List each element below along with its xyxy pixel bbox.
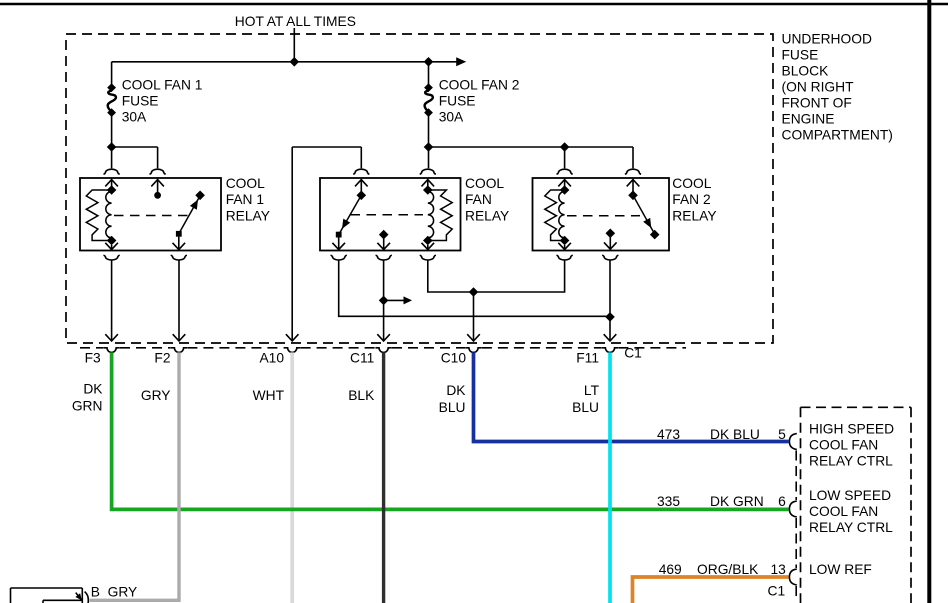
svg-text:BLOCK: BLOCK xyxy=(782,64,830,79)
svg-text:HOT AT ALL TIMES: HOT AT ALL TIMES xyxy=(235,14,356,29)
svg-text:335: 335 xyxy=(657,494,680,509)
svg-text:RELAY CTRL: RELAY CTRL xyxy=(809,520,893,535)
svg-text:COOL: COOL xyxy=(465,176,504,191)
svg-text:BLK: BLK xyxy=(348,388,375,403)
svg-text:6: 6 xyxy=(778,494,786,509)
svg-text:GRY: GRY xyxy=(108,585,138,600)
svg-text:ENGINE: ENGINE xyxy=(782,112,835,127)
svg-text:COOL FAN: COOL FAN xyxy=(809,437,878,452)
svg-text:30A: 30A xyxy=(439,110,464,125)
svg-text:COMPARTMENT): COMPARTMENT) xyxy=(782,128,893,143)
svg-text:ORG/BLK: ORG/BLK xyxy=(697,562,759,577)
svg-text:UNDERHOOD: UNDERHOOD xyxy=(782,32,872,47)
svg-text:5: 5 xyxy=(778,427,786,442)
svg-text:FRONT OF: FRONT OF xyxy=(782,96,852,111)
svg-text:DK GRN: DK GRN xyxy=(710,494,764,509)
svg-text:LOW REF: LOW REF xyxy=(809,562,872,577)
svg-text:LT: LT xyxy=(584,383,600,398)
svg-text:C11: C11 xyxy=(350,350,374,365)
svg-text:BLU: BLU xyxy=(572,400,599,415)
svg-text:30A: 30A xyxy=(122,110,147,125)
svg-text:LOW SPEED: LOW SPEED xyxy=(809,488,891,503)
svg-text:F11: F11 xyxy=(576,350,599,365)
svg-text:RELAY: RELAY xyxy=(672,208,716,223)
svg-text:BLU: BLU xyxy=(439,400,466,415)
svg-text:(ON RIGHT: (ON RIGHT xyxy=(782,80,855,95)
svg-text:DK BLU: DK BLU xyxy=(710,427,760,442)
svg-text:COOL FAN: COOL FAN xyxy=(809,504,878,519)
svg-text:FAN: FAN xyxy=(465,192,492,207)
svg-text:HIGH SPEED: HIGH SPEED xyxy=(809,421,894,436)
svg-text:13: 13 xyxy=(770,562,786,577)
svg-text:FUSE: FUSE xyxy=(122,94,159,109)
svg-text:COOL: COOL xyxy=(226,176,265,191)
svg-text:FAN 2: FAN 2 xyxy=(672,192,710,207)
svg-text:FUSE: FUSE xyxy=(782,48,819,63)
svg-text:B: B xyxy=(91,585,100,600)
svg-text:DK: DK xyxy=(446,383,466,398)
svg-text:COOL: COOL xyxy=(672,176,711,191)
svg-text:FUSE: FUSE xyxy=(439,94,476,109)
svg-text:GRY: GRY xyxy=(141,388,171,403)
svg-text:COOL FAN 2: COOL FAN 2 xyxy=(439,78,520,93)
svg-text:RELAY CTRL: RELAY CTRL xyxy=(809,453,893,468)
svg-text:C10: C10 xyxy=(441,350,467,365)
svg-text:473: 473 xyxy=(657,427,680,442)
svg-text:DK: DK xyxy=(83,381,103,396)
svg-text:A10: A10 xyxy=(259,350,284,365)
svg-text:GRN: GRN xyxy=(72,398,103,413)
svg-text:RELAY: RELAY xyxy=(226,208,270,223)
svg-text:FAN 1: FAN 1 xyxy=(226,192,264,207)
svg-text:C1: C1 xyxy=(624,345,642,360)
svg-text:C1: C1 xyxy=(768,584,786,599)
svg-text:RELAY: RELAY xyxy=(465,208,509,223)
svg-text:COOL FAN 1: COOL FAN 1 xyxy=(122,78,203,93)
svg-text:F2: F2 xyxy=(154,350,170,365)
svg-text:469: 469 xyxy=(659,562,682,577)
svg-text:F3: F3 xyxy=(85,350,101,365)
svg-text:WHT: WHT xyxy=(253,388,285,403)
